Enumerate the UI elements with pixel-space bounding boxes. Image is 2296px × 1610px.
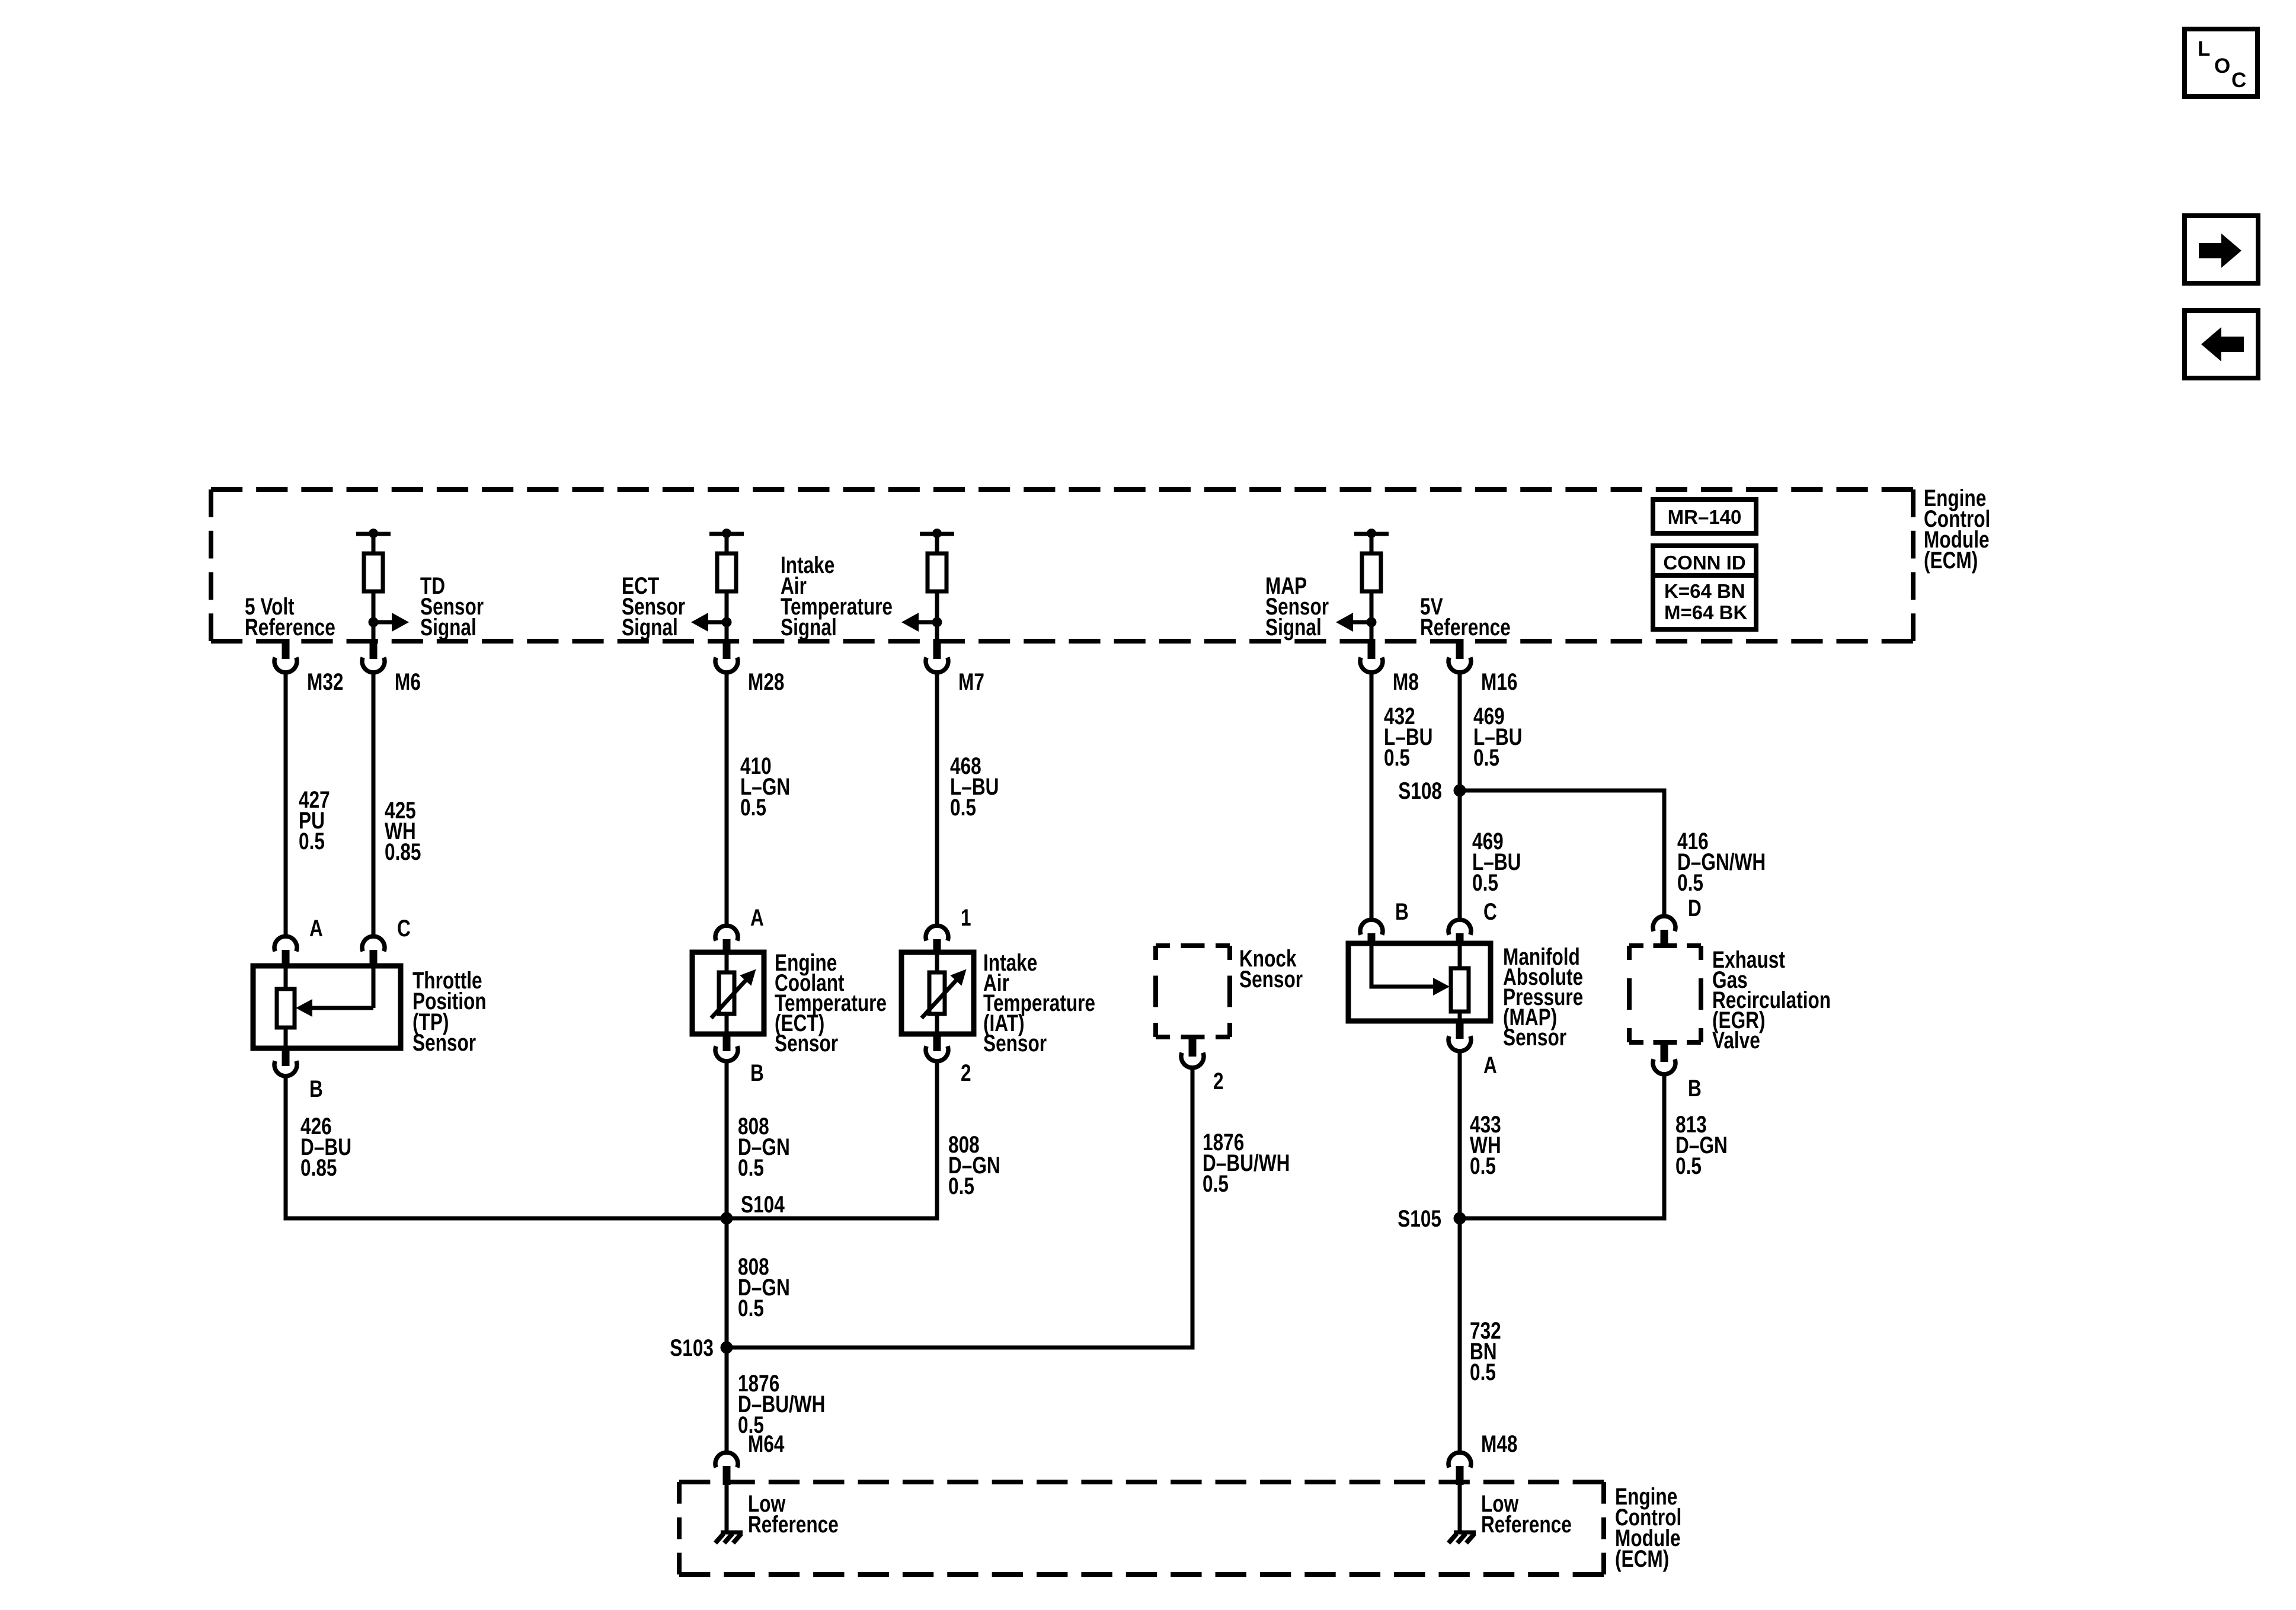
pin label 1 <box>961 904 971 930</box>
svg-text:B: B <box>750 1059 764 1086</box>
svg-text:0.5: 0.5 <box>738 1294 764 1321</box>
label: Throttle Position (TP) Sensor <box>412 966 487 1055</box>
connector pin 2 of knock sensor <box>1181 1037 1204 1068</box>
signal arrow TD <box>373 613 409 632</box>
connector pin A of MAP sensor <box>1448 1021 1471 1051</box>
svg-text:K=64 BN: K=64 BN <box>1664 580 1745 602</box>
wire 808 D-GN (ECT B to S104) <box>725 1060 729 1218</box>
svg-text:0.5: 0.5 <box>738 1154 764 1180</box>
svg-text:S104: S104 <box>741 1190 785 1217</box>
label: S105 <box>1398 1205 1441 1231</box>
svg-text:A: A <box>750 904 764 930</box>
pin label B <box>1395 898 1409 924</box>
pin label B <box>309 1075 323 1102</box>
svg-text:2: 2 <box>1213 1067 1224 1094</box>
label: wire 426 D-BU 0.85 <box>300 1112 351 1180</box>
wire low reference left inside ECM <box>725 1485 729 1531</box>
label: Engine Control Module (ECM) bottom right <box>1615 1483 1681 1571</box>
connector M32 at ECM <box>274 639 297 673</box>
svg-text:M64: M64 <box>748 1430 784 1457</box>
pin label M64 <box>748 1430 784 1457</box>
ground symbol right (low reference) <box>1448 1532 1476 1543</box>
pin label 2 (IAT) <box>961 1059 971 1086</box>
MAP potentiometer resistor <box>1451 946 1469 1019</box>
knock sensor dashed box <box>1156 946 1230 1037</box>
svg-text:S105: S105 <box>1398 1205 1441 1231</box>
svg-text:0.5: 0.5 <box>1384 744 1410 770</box>
svg-text:Signal: Signal <box>781 613 837 640</box>
label: TD Sensor Signal <box>420 572 484 640</box>
wire 410 L-GN (M28 to ECT A) <box>725 671 729 926</box>
svg-text:M6: M6 <box>395 668 421 694</box>
svg-text:0.5: 0.5 <box>1675 1152 1702 1179</box>
svg-text:D: D <box>1688 894 1702 921</box>
wire 469 L-BU (M16 to S108) <box>1458 671 1462 790</box>
pin label B (EGR) <box>1688 1074 1702 1101</box>
connector M8 at ECM <box>1360 639 1383 673</box>
svg-text:Reference: Reference <box>748 1510 839 1537</box>
svg-text:M16: M16 <box>1481 668 1517 694</box>
svg-text:0.5: 0.5 <box>1470 1358 1496 1385</box>
svg-text:L: L <box>2198 37 2210 60</box>
connector M7 at ECM <box>926 639 948 673</box>
intake air temperature sensor IAT box with thermistor <box>901 952 974 1034</box>
svg-text:B: B <box>1688 1074 1702 1101</box>
svg-text:M8: M8 <box>1393 668 1419 694</box>
svg-text:Signal: Signal <box>622 613 678 640</box>
connector pin B of ECT sensor <box>715 1034 738 1061</box>
wire 426 D-BU (TP B to S104) <box>286 1075 727 1218</box>
node: MAP signal junction <box>1367 617 1377 628</box>
wire 813 D-GN (EGR B to S105) <box>1460 1073 1664 1218</box>
svg-text:B: B <box>1395 898 1409 924</box>
forward arrow navigation box <box>2185 216 2258 283</box>
node S108 splice <box>1454 785 1466 797</box>
label: wire 813 D-GN 0.5 <box>1675 1110 1728 1179</box>
connector pin 2 of IAT sensor <box>926 1034 948 1061</box>
label: Engine Control Module (ECM) top right <box>1924 484 1990 573</box>
label: 5 Volt Reference <box>245 593 335 640</box>
pin label D <box>1688 894 1702 921</box>
pin label B (ECT) <box>750 1059 764 1086</box>
svg-text:0.5: 0.5 <box>299 827 325 854</box>
svg-text:S108: S108 <box>1398 777 1442 804</box>
pin label A (MAP) <box>1483 1051 1497 1078</box>
svg-text:0.5: 0.5 <box>1677 869 1703 895</box>
svg-text:Sensor: Sensor <box>983 1029 1047 1056</box>
connector pin B of TP sensor <box>274 1048 297 1076</box>
pin label C <box>397 914 411 941</box>
wire low reference right inside ECM <box>1458 1485 1462 1531</box>
wire 808 D-GN (IAT 2 to S104) <box>727 1060 937 1218</box>
connector M48 at ECM bottom <box>1448 1452 1471 1485</box>
label: S104 <box>741 1190 785 1217</box>
wire 1876 D-BU/WH (knock to S103) <box>727 1067 1192 1347</box>
label: Low Reference right <box>1481 1490 1572 1537</box>
svg-text:0.5: 0.5 <box>1473 744 1499 770</box>
node: IAT signal junction <box>932 617 942 628</box>
svg-text:0.5: 0.5 <box>1203 1170 1229 1196</box>
wire 808 D-GN (S104 to S103) <box>725 1218 729 1347</box>
ECM top dashed box <box>211 489 1913 641</box>
connector pin B cap <box>1360 920 1383 946</box>
pin label A <box>309 914 323 941</box>
node: TD signal junction <box>369 617 379 628</box>
label: wire 808 D-GN 0.5 (S104-S103) <box>738 1253 790 1321</box>
svg-text:0.5: 0.5 <box>1470 1152 1496 1179</box>
wire 432 L-BU (M8 to MAP B) <box>1370 671 1374 920</box>
connector pin B of EGR valve <box>1653 1042 1675 1074</box>
label: Intake Air Temperature Signal <box>781 551 893 640</box>
svg-text:MR–140: MR–140 <box>1668 506 1742 528</box>
svg-text:Sensor: Sensor <box>1239 965 1303 992</box>
pull-up resistor ECT sensor signal <box>709 529 744 641</box>
svg-text:0.85: 0.85 <box>385 838 421 865</box>
label: wire 808 D-GN 0.5 (ECT) <box>738 1112 790 1180</box>
svg-text:M32: M32 <box>307 668 343 694</box>
connector pin C cap <box>362 936 385 968</box>
svg-text:Reference: Reference <box>1420 613 1511 640</box>
pin label M28 <box>748 668 784 694</box>
pull-up resistor MAP signal <box>1354 529 1389 641</box>
label: wire 808 D-GN 0.5 (IAT) <box>948 1131 1000 1199</box>
wire 468 L-BU (M7 to IAT 1) <box>935 671 939 926</box>
TP wiper arrow from pin C <box>296 968 373 1017</box>
wire 425 WH (M6 to TP C) <box>372 671 376 936</box>
label: wire 410 L-GN 0.5 <box>740 752 790 820</box>
svg-text:C: C <box>1483 898 1497 924</box>
throttle position sensor TP box <box>253 966 401 1048</box>
connector pin C cap <box>1448 920 1471 946</box>
CONN ID box <box>1653 546 1756 629</box>
label: S108 <box>1398 777 1442 804</box>
pin label M8 <box>1393 668 1419 694</box>
label: wire 1876 D-BU/WH 0.5 (S103-M64) <box>738 1369 825 1438</box>
svg-text:0.85: 0.85 <box>300 1154 337 1180</box>
LOC legend box <box>2185 29 2257 97</box>
node S104 splice <box>721 1212 733 1225</box>
svg-text:2: 2 <box>961 1059 971 1086</box>
label: MAP Sensor Signal <box>1265 572 1329 640</box>
connector pin A cap <box>715 926 738 955</box>
svg-text:S103: S103 <box>670 1334 714 1361</box>
pin label C <box>1483 898 1497 924</box>
svg-text:Reference: Reference <box>1481 1510 1572 1537</box>
label: wire 732 BN 0.5 <box>1470 1317 1501 1385</box>
label: Intake Air Temperature (IAT) Sensor <box>983 949 1095 1056</box>
connector M6 at ECM <box>362 639 385 673</box>
pin label A <box>750 904 764 930</box>
pull-up resistor TD sensor signal <box>356 529 391 641</box>
label: Low Reference left <box>748 1490 839 1537</box>
engine coolant temperature sensor ECT box with thermistor <box>692 952 764 1034</box>
label: Engine Coolant Temperature (ECT) Sensor <box>775 949 887 1056</box>
svg-text:C: C <box>2231 69 2246 92</box>
svg-text:M48: M48 <box>1481 1430 1517 1457</box>
svg-text:O: O <box>2214 55 2230 78</box>
node: ECT signal junction <box>722 617 732 628</box>
wire 732 BN (S105 to M48) <box>1458 1218 1462 1451</box>
ECM bottom dashed box <box>679 1482 1604 1574</box>
svg-text:0.5: 0.5 <box>1472 869 1498 895</box>
label: wire 416 D-GN/WH 0.5 <box>1677 827 1766 895</box>
connector M28 at ECM <box>715 639 738 673</box>
signal arrow IAT <box>901 613 937 632</box>
svg-text:0.5: 0.5 <box>740 793 766 820</box>
pin label M16 <box>1481 668 1517 694</box>
label: ECT Sensor Signal <box>622 572 685 640</box>
svg-text:Valve: Valve <box>1712 1026 1760 1053</box>
wire 433 WH (MAP A to S105) <box>1458 1050 1462 1218</box>
svg-text:Signal: Signal <box>420 613 477 640</box>
label: wire 1876 D-BU/WH 0.5 (knock) <box>1203 1128 1290 1196</box>
connector pin 1 cap <box>926 926 948 955</box>
label: wire 433 WH 0.5 <box>1470 1110 1501 1179</box>
svg-text:B: B <box>309 1075 323 1102</box>
label: Manifold Absolute Pressure (MAP) Sensor <box>1503 943 1583 1050</box>
TP potentiometer resistor <box>277 968 295 1046</box>
svg-text:A: A <box>1483 1051 1497 1078</box>
svg-text:(ECM): (ECM) <box>1615 1545 1669 1571</box>
exhaust gas recirculation EGR valve dashed box <box>1629 946 1701 1042</box>
svg-text:Sensor: Sensor <box>412 1029 476 1055</box>
label: Exhaust Gas Recirculation (EGR) Valve <box>1712 946 1831 1053</box>
pin label M6 <box>395 668 421 694</box>
back arrow navigation box <box>2185 311 2258 378</box>
wire 1876 D-BU/WH (S103 to M64) <box>725 1347 729 1451</box>
svg-text:C: C <box>397 914 411 941</box>
node S103 splice <box>721 1342 733 1354</box>
ground symbol left (low reference) <box>715 1532 743 1543</box>
connector pin A cap <box>274 936 297 968</box>
label: wire 427 PU 0.5 <box>299 786 330 854</box>
label: wire 469 L-BU 0.5 upper <box>1473 702 1522 770</box>
connector M16 at ECM <box>1448 639 1471 673</box>
label: wire 425 WH 0.85 <box>385 796 421 865</box>
wire 427 PU (M32 to TP A) <box>284 671 288 936</box>
node S105 splice <box>1454 1212 1466 1225</box>
svg-text:1: 1 <box>961 904 971 930</box>
svg-text:0.5: 0.5 <box>948 1172 974 1199</box>
svg-text:Sensor: Sensor <box>1503 1023 1566 1050</box>
svg-text:Reference: Reference <box>245 613 335 640</box>
label: S103 <box>670 1334 714 1361</box>
pin label M48 <box>1481 1430 1517 1457</box>
label: Knock Sensor <box>1239 945 1303 992</box>
svg-text:M7: M7 <box>958 668 984 694</box>
connector pin D cap <box>1653 916 1675 948</box>
svg-text:Sensor: Sensor <box>775 1029 838 1056</box>
label: wire 432 L-BU 0.5 <box>1384 702 1432 770</box>
pull-up resistor IAT signal <box>920 529 954 641</box>
connector M64 at ECM bottom <box>715 1452 738 1485</box>
svg-text:0.5: 0.5 <box>950 793 976 820</box>
MAP wiper arrow from pin B <box>1371 946 1450 996</box>
signal arrow MAP <box>1336 613 1371 632</box>
label: wire 468 L-BU 0.5 <box>950 752 999 820</box>
svg-text:M=64 BK: M=64 BK <box>1664 601 1747 623</box>
svg-text:Signal: Signal <box>1265 613 1322 640</box>
MR-140 connector id box <box>1653 500 1756 533</box>
svg-text:CONN ID: CONN ID <box>1663 552 1745 574</box>
signal arrow ECT <box>691 613 727 632</box>
pin label 2 (knock) <box>1213 1067 1224 1094</box>
pin label M7 <box>958 668 984 694</box>
label: wire 469 L-BU 0.5 lower <box>1472 827 1521 895</box>
pin label M32 <box>307 668 343 694</box>
wire 469 L-BU (S108 to MAP C) <box>1458 790 1462 920</box>
svg-text:M28: M28 <box>748 668 784 694</box>
manifold absolute pressure sensor MAP box <box>1348 943 1491 1021</box>
wire 416 D-GN/WH (S108 to EGR D) <box>1460 790 1664 916</box>
svg-text:A: A <box>309 914 323 941</box>
svg-text:(ECM): (ECM) <box>1924 546 1978 573</box>
label: 5V Reference <box>1420 593 1511 640</box>
